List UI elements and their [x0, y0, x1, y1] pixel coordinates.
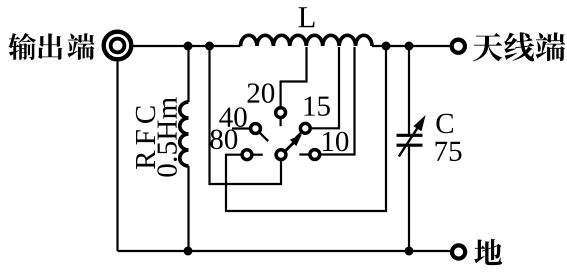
stub left of 10 contact	[299, 153, 308, 155]
wire: top rail coil to antenna terminal	[372, 45, 452, 47]
coax connector inner ring	[111, 39, 125, 53]
capacitor arrow head	[414, 115, 426, 131]
capacitor top lead	[408, 46, 410, 135]
diagonal stub of 40 contact	[260, 133, 269, 142]
capacitor bottom lead	[408, 145, 410, 251]
RFC choke coil	[180, 102, 189, 166]
coax connector outer ring	[104, 32, 132, 60]
label L	[299, 7, 315, 27]
wire: 20 contact to coil tap	[281, 47, 307, 107]
wire: 80 contact to top rail after coil	[226, 46, 386, 211]
label RFC (rotated)	[136, 106, 155, 169]
switch contact 10	[310, 150, 320, 160]
label 10	[323, 132, 348, 152]
wire: bottom ground rail	[118, 250, 453, 252]
rotor arrow shaft	[286, 143, 294, 151]
label 75	[436, 142, 462, 161]
antenna terminal circle	[452, 40, 465, 53]
junction dot 80-wire top	[382, 42, 391, 51]
switch contact 80	[242, 150, 252, 160]
stub below 20 contact	[280, 119, 282, 126]
capacitor arrow shaft	[399, 128, 418, 157]
diagonal stub of 15 contact	[295, 132, 301, 138]
capacitor top plate	[397, 134, 423, 137]
junction dot pole-wire top	[205, 42, 214, 51]
capacitor bottom plate	[397, 144, 423, 147]
switch contact 15	[300, 123, 310, 133]
char 端	[536, 32, 566, 61]
label 20	[248, 83, 275, 103]
ground terminal circle	[452, 245, 465, 258]
junction dot RFC top	[184, 42, 193, 51]
char 端	[67, 33, 94, 60]
stub right of 80 contact	[253, 154, 262, 156]
label C	[436, 114, 453, 133]
switch contact 40	[251, 124, 261, 134]
wire: 10 contact to coil tap	[321, 47, 355, 155]
char 天	[473, 33, 502, 61]
inductor L coil	[241, 35, 373, 46]
wire: 15 contact to coil tap	[311, 47, 339, 128]
wire: left vertical down from connector	[116, 60, 118, 252]
wire: top rail connector to coil	[132, 45, 241, 47]
junction dot RFC bottom	[184, 247, 193, 256]
label 15	[305, 96, 330, 115]
switch pole contact	[276, 150, 286, 160]
char 地	[474, 239, 502, 265]
label 40	[219, 107, 246, 127]
junction dot capacitor bottom	[405, 247, 414, 256]
label 0.5Hm (rotated)	[157, 97, 177, 176]
RFC top lead	[187, 46, 189, 102]
wire: pole to top rail	[210, 46, 282, 184]
stub left of 40 contact	[232, 127, 249, 129]
char 线	[504, 32, 534, 61]
char 出	[38, 33, 62, 59]
junction dot capacitor top	[405, 42, 414, 51]
label 80	[210, 130, 237, 150]
RFC bottom lead	[187, 166, 189, 251]
char 输	[8, 33, 36, 60]
rotor arrow head	[290, 134, 302, 146]
switch contact 20	[276, 108, 286, 118]
